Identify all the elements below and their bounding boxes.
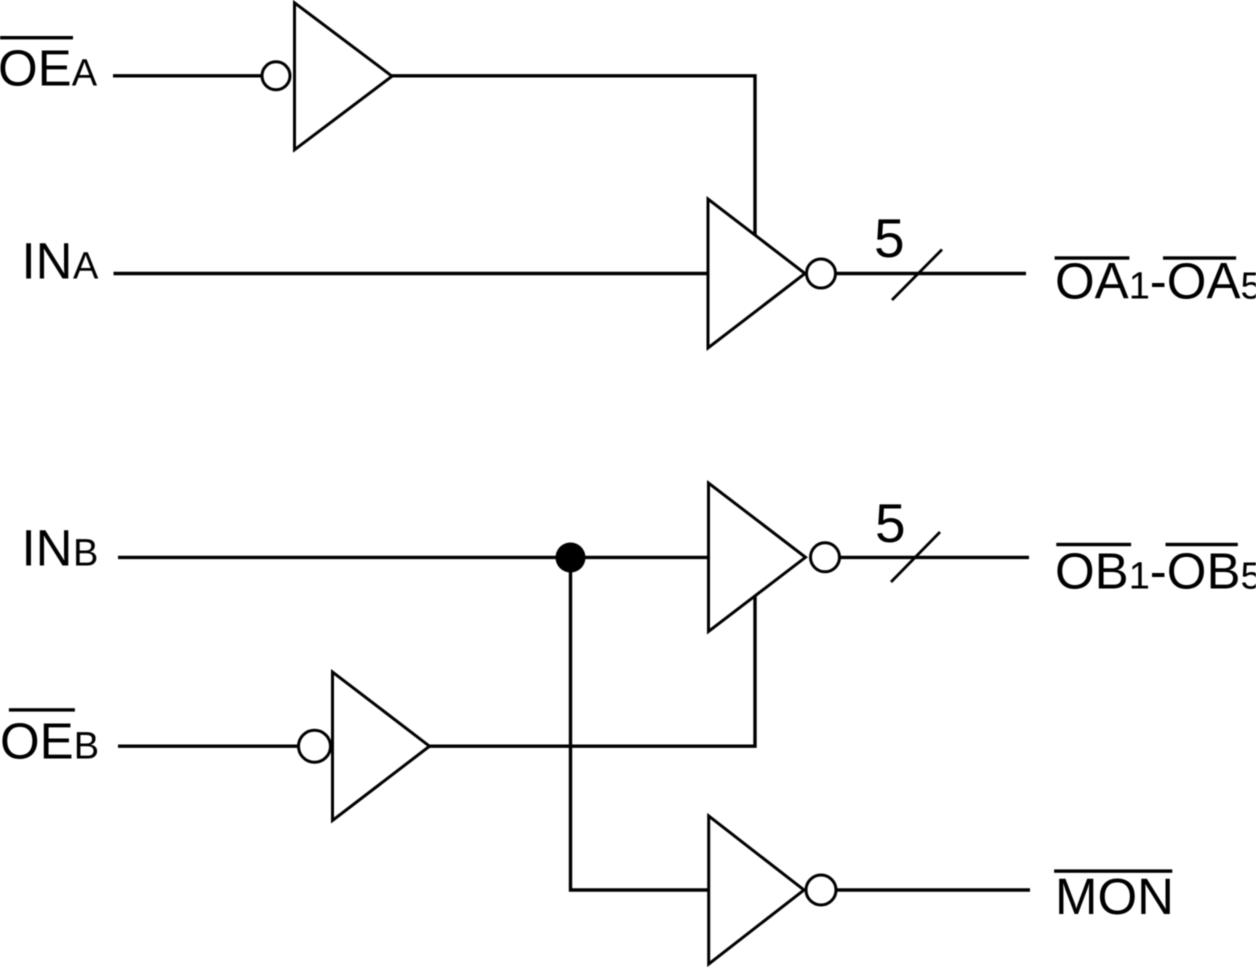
overline over OEB [9, 708, 75, 711]
svg-text:OE: OE [0, 40, 72, 97]
svg-text:OB: OB [1055, 542, 1129, 599]
node OB1-OB5 label [1055, 542, 1256, 599]
node INB label [22, 520, 99, 577]
svg-text:5: 5 [1241, 266, 1256, 308]
svg-text:B: B [73, 533, 98, 575]
node OEA label [0, 40, 98, 97]
bus slash (A) [892, 250, 942, 301]
wire U3 output [840, 556, 1029, 559]
wire U1 output to enable corner [392, 76, 755, 235]
wire INA input [114, 272, 709, 275]
overline over second OB [1166, 543, 1238, 546]
node OEB label [0, 713, 99, 770]
output bubble of U2 [807, 259, 836, 288]
svg-text:MON: MON [1055, 868, 1174, 925]
svg-text:IN: IN [22, 233, 73, 290]
svg-text:OA: OA [1055, 253, 1129, 310]
svg-text:OB: OB [1167, 542, 1241, 599]
overline over second OA [1163, 256, 1236, 259]
svg-text:OE: OE [0, 713, 74, 770]
inverting input bubble of buffer U4 [299, 730, 331, 762]
svg-text:OA: OA [1167, 253, 1241, 310]
bus slash (B) [891, 532, 940, 582]
wire INB input [118, 556, 709, 559]
node INA label [22, 233, 100, 290]
wire U2 output [836, 272, 1026, 275]
tri-state inverter U2 (INA driver) [708, 199, 805, 348]
buffer U1 (OEA enable buffer) [295, 3, 393, 150]
svg-text:5: 5 [875, 492, 906, 554]
svg-text:5: 5 [874, 207, 905, 269]
output bubble of U5 [806, 875, 836, 905]
wire U4 output to enable corner of U3 [430, 596, 756, 746]
svg-text:B: B [74, 726, 99, 768]
svg-text:IN: IN [22, 520, 73, 577]
overline over first OB [1056, 543, 1131, 546]
svg-text:A: A [73, 246, 99, 288]
junction dot node N1 [556, 543, 586, 573]
svg-text:1: 1 [1129, 266, 1150, 308]
wire OEA input [113, 74, 261, 77]
output bubble of U3 [811, 543, 840, 572]
tri-state inverter U3 (INB driver) [709, 483, 806, 632]
svg-text:1: 1 [1129, 555, 1150, 597]
tri-state inverter U5 (MON driver) [709, 816, 804, 964]
svg-text:-: - [1150, 542, 1167, 599]
node OA1-OA5 label [1055, 253, 1256, 310]
wire U5 output [837, 888, 1031, 891]
svg-text:5: 5 [1241, 555, 1256, 597]
inverting input bubble of buffer U1 [262, 62, 290, 90]
wire from node N1 down to MON inverter input [571, 558, 710, 891]
overline over MON [1054, 869, 1172, 872]
svg-text:-: - [1150, 253, 1167, 310]
overline over OEA [0, 36, 73, 39]
overline over first OA [1055, 256, 1130, 259]
wire OEB input [118, 745, 298, 748]
svg-text:A: A [72, 53, 98, 95]
buffer U4 (OEB enable buffer) [333, 672, 430, 821]
